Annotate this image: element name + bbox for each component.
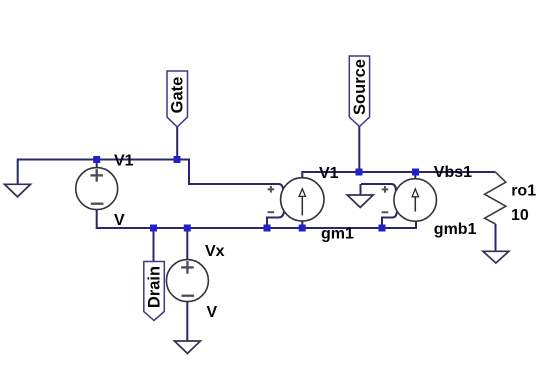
svg-text:Vbs1: Vbs1 — [434, 164, 472, 181]
svg-text:Vx: Vx — [205, 243, 225, 260]
svg-text:V1: V1 — [114, 153, 134, 170]
svg-text:ro1: ro1 — [511, 183, 536, 200]
svg-text:gm1: gm1 — [321, 226, 354, 243]
svg-text:V: V — [207, 304, 218, 321]
svg-text:V: V — [114, 212, 125, 229]
svg-text:Source: Source — [351, 59, 369, 115]
svg-text:V1: V1 — [319, 165, 339, 182]
svg-text:Drain: Drain — [146, 266, 164, 308]
svg-text:Gate: Gate — [169, 77, 187, 114]
svg-text:10: 10 — [511, 207, 529, 224]
svg-text:gmb1: gmb1 — [434, 221, 477, 238]
